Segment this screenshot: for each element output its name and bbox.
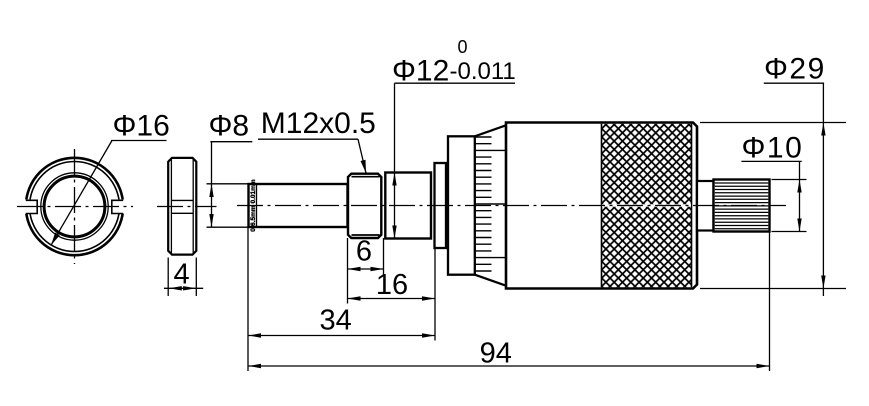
dim 34/94 extension line left [247,228,249,372]
PHI8 arrows [209,184,213,197]
front view bore circle (bold) [44,176,105,237]
dim 6 extension line right [383,238,385,274]
dim 4 arrows [169,286,182,290]
thimble band [448,136,475,274]
dim 16/34 extension line right [434,248,436,341]
dim 4 extension lines [168,258,196,297]
svg-text:M12x0.5: M12x0.5 [261,107,376,140]
thimble graduation ticks [475,137,506,271]
thimble bevel top slant [475,125,506,136]
svg-text:0: 0 [458,37,468,57]
main centerline [237,205,786,207]
PHI29 underline [764,82,824,84]
body outline [506,123,697,289]
dim 16 extension line left [347,238,349,304]
front view lock ring: second circle [30,162,120,252]
thread chamfer lines [352,177,380,235]
dim 94 extension line right [769,232,771,372]
thread M12 [348,174,381,238]
PHI12 underline [395,82,516,84]
stem PHI12 [385,173,431,239]
spindle [249,184,348,227]
PHI29 dimension line [822,83,824,296]
notch gaps (white) [22,199,38,213]
knurl boundary lines [602,124,692,287]
end cap [714,180,770,232]
nut centerline [157,206,217,208]
thimble bevel bottom slant [475,275,506,286]
dim 6 arrows [348,267,361,271]
knurl pattern area [602,124,692,287]
flange [435,163,447,248]
svg-text:94: 94 [480,338,512,370]
dim 16 line [348,298,436,300]
M12 underline [258,138,358,140]
nut center groove [171,200,193,213]
stub shaft [697,181,714,231]
PHI16 leader [51,141,112,246]
PHI29 arrows [821,123,825,136]
dim 16 arrows [348,296,361,300]
nut inner edge lines [171,160,193,254]
svg-text:Φ8: Φ8 [209,110,250,143]
PHI10 arrows [797,180,801,193]
centerline white casing across knurl [602,204,691,206]
svg-text:Φ29: Φ29 [764,53,826,86]
svg-text:Φ10: Φ10 [742,132,804,165]
PHI12 arrows [392,173,396,186]
dim 94 arrows [248,364,261,368]
PHI8 underline [210,141,252,143]
PHI16 leader arrowhead [51,233,60,246]
svg-text:4: 4 [174,259,190,291]
svg-text:16: 16 [376,269,408,301]
front view vertical centerline [74,149,76,264]
PHI29 extension lines [700,123,846,289]
M12 leader [358,139,366,173]
spindle marking band edge [256,184,258,227]
svg-text:6: 6 [356,236,372,268]
PHI16 underline [111,140,167,142]
right notch [112,200,123,213]
dim 4 line [164,287,203,289]
dim 6 line [348,268,384,270]
svg-text:Φ16: Φ16 [113,110,170,143]
cap straight knurl lines [715,183,769,229]
dim 34 arrows [248,333,261,337]
M12 leader arrowhead [361,160,367,173]
dim 34 line [248,335,435,337]
front view thread major circle (thin) [41,173,108,240]
svg-text:-0.011: -0.011 [450,58,516,85]
PHI12 dimension line [394,83,396,238]
PHI10 dimension line [799,161,801,231]
dim 94 line [248,365,770,367]
knurled nut side view body [168,158,196,255]
PHI8 dimension line [211,142,213,228]
PHI10 extension lines [772,180,807,232]
PHI10 underline [741,160,801,162]
svg-text:34: 34 [319,305,351,337]
PHI8 extension lines [207,184,250,227]
front view lock ring: outer circle [26,158,123,255]
left notch [26,200,37,213]
front view horizontal centerline [17,206,133,208]
